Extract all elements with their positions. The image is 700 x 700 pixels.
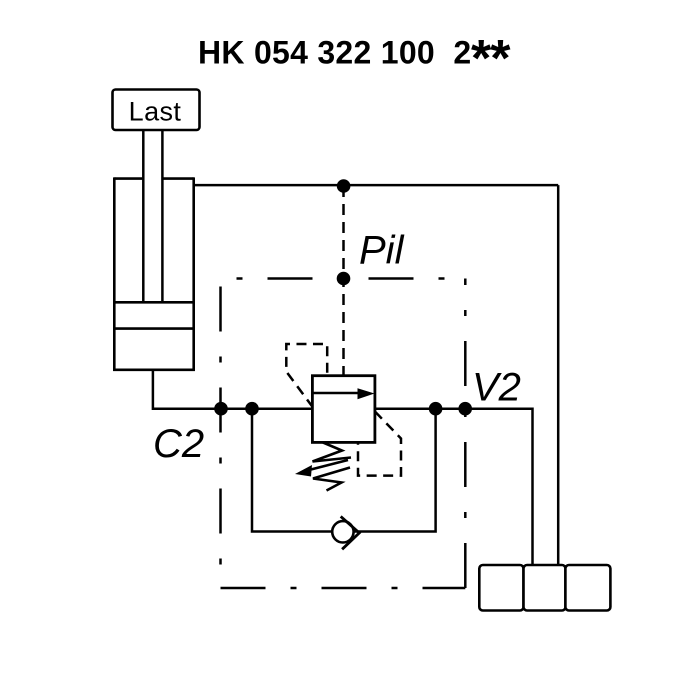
wire: right side down bbox=[557, 185, 560, 566]
wire: cylinder top to right bbox=[194, 184, 559, 187]
cylinder rod bbox=[143, 130, 162, 303]
pilot line (dashed) from top junction to valve bbox=[342, 186, 345, 376]
junction dot: C2 port on manifold boundary bbox=[214, 402, 228, 416]
spring adjust arrow bbox=[295, 460, 348, 477]
wire: cylinder bottom port bbox=[153, 370, 313, 409]
junction dot: V2 port on manifold boundary bbox=[458, 402, 472, 416]
svg-text:V2: V2 bbox=[472, 366, 521, 410]
svg-text:Last: Last bbox=[129, 97, 182, 127]
port block (three squares) bbox=[479, 565, 610, 611]
junction dot: bypass branch right bbox=[429, 402, 443, 416]
counterbalance valve body bbox=[312, 376, 375, 443]
svg-text:C2: C2 bbox=[153, 422, 204, 466]
spring bbox=[313, 443, 352, 491]
svg-text:Pil: Pil bbox=[359, 229, 405, 273]
left pilot feedback loop (dashed) bbox=[286, 344, 327, 408]
junction dot: pilot tap on top line bbox=[337, 179, 351, 193]
bypass loop with check valve bbox=[252, 409, 436, 532]
svg-text:HK 054 322 100 2: HK 054 322 100 2 bbox=[198, 35, 471, 71]
right drain loop (dashed) bbox=[358, 412, 401, 476]
svg-text:**: ** bbox=[471, 30, 511, 88]
boundary box (dash-dot) bbox=[221, 279, 466, 589]
wire: valve to V2 line bbox=[375, 409, 533, 566]
check valve V1 bbox=[332, 516, 359, 549]
load box "Last" bbox=[113, 90, 200, 131]
junction dot: bypass branch left bbox=[245, 402, 259, 416]
junction dot: Pil port on manifold boundary bbox=[337, 272, 351, 286]
cylinder C1 body bbox=[113, 177, 195, 371]
